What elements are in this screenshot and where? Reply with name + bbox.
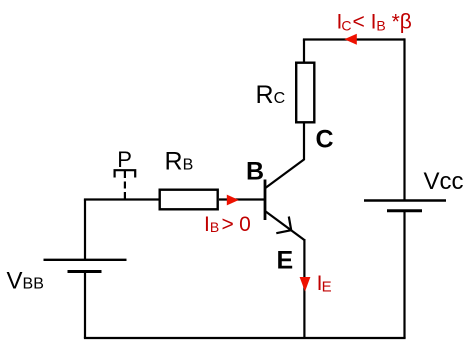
svg-text:RB: RB <box>165 148 194 176</box>
svg-text:E: E <box>277 246 294 274</box>
wire: Vcc lower vertical <box>403 211 405 338</box>
svg-text:VBB: VBB <box>7 268 44 295</box>
svg-text:RC: RC <box>256 81 286 109</box>
svg-text:B: B <box>246 157 264 185</box>
svg-text:IE: IE <box>317 272 332 296</box>
svg-text:IB > 0: IB > 0 <box>204 213 251 236</box>
svg-text:C: C <box>316 126 334 154</box>
probe P bracket <box>115 170 136 199</box>
wire: base wire left of RB <box>84 198 159 200</box>
wire: bottom rail <box>84 337 406 339</box>
wire: collector segment below RC <box>303 124 305 161</box>
battery VBB <box>44 260 127 272</box>
resistor RC <box>296 63 314 123</box>
wire: collector top segment above RC <box>303 40 305 63</box>
battery Vcc <box>364 201 446 211</box>
wire: emitter vertical <box>303 239 305 338</box>
transistor Q1 <box>265 159 305 240</box>
resistor RB <box>160 190 218 210</box>
svg-text:Vcc: Vcc <box>424 168 464 195</box>
current arrow IE <box>300 277 311 292</box>
wire: Vcc upper vertical <box>403 38 405 200</box>
wire: top rail <box>303 38 405 40</box>
wire: VBB upper vertical <box>84 200 86 260</box>
wire: VBB lower vertical <box>84 272 86 339</box>
svg-text:IC< IB *β: IC< IB *β <box>337 11 412 34</box>
wire: base wire right of RB <box>219 198 264 200</box>
current arrow IC <box>344 34 357 45</box>
svg-text:P: P <box>117 147 132 172</box>
current arrow IB <box>227 195 239 206</box>
